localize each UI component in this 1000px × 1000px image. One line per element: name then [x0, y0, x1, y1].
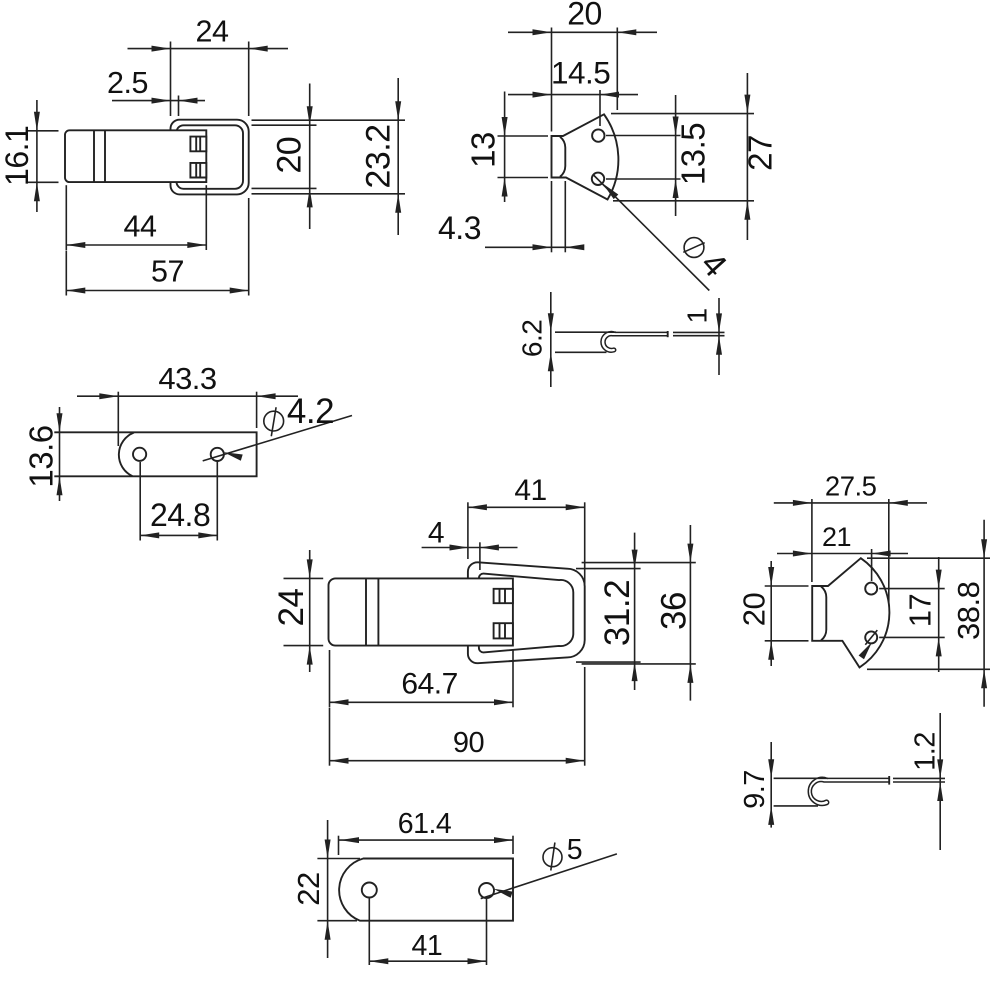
dim 13.5 extension line top [606, 135, 681, 137]
dim 24B arrow top [307, 559, 313, 578]
dim 24.8 arrow left [140, 532, 159, 538]
dim 36 extension line top [582, 562, 696, 564]
dim 17 arrow top [936, 570, 942, 589]
hole dia 4 leader arrow [603, 183, 619, 199]
latch A upper claw inner edge 1 [195, 137, 197, 152]
dim 16.1 arrow bottom [34, 182, 40, 201]
dim 21 arrow left [793, 551, 812, 557]
dim 27 line [746, 73, 748, 240]
dim 1 arrow top [716, 313, 722, 332]
svg-text:24.8: 24.8 [150, 497, 210, 533]
catch plate A upper hole [592, 129, 604, 141]
dim 20 extension line top [252, 124, 317, 126]
dim 27 arrow bottom [744, 201, 750, 220]
dim 2.5 arrow left [152, 98, 171, 104]
dim 41B extension line left [368, 899, 370, 966]
dim 38.8 extension line top [867, 557, 990, 559]
dim 41B arrow right [468, 958, 487, 964]
svg-text:13: 13 [465, 132, 502, 168]
dim 24.8 arrow right [198, 532, 217, 538]
dim 27 extension line top [611, 113, 754, 115]
latch A strap fold line 1 [93, 130, 95, 182]
dim 90 arrow left [330, 758, 349, 764]
catch plate A body [552, 114, 619, 199]
dim 43.3 extension line right [256, 392, 258, 428]
dim 6.2 extension line top [555, 331, 616, 333]
dim 41 line [468, 506, 585, 508]
hook profile B end tick [888, 776, 890, 785]
dim 13.6 arrow bottom [57, 476, 63, 495]
dim 24 arrow left [152, 46, 171, 52]
dim 44 extension line right [205, 185, 207, 250]
dim 41 extension line right [584, 502, 586, 586]
dim 1.2 line [939, 713, 941, 850]
dim 13.6 line [59, 407, 61, 501]
dim 22 extension line bottom [317, 920, 357, 922]
dim 4.3 line [485, 246, 583, 248]
latch B lower claw inner edge 2 [504, 623, 506, 638]
dim 61.4 arrow right [494, 837, 513, 843]
dim 24B extension line bottom [284, 645, 324, 647]
dim 90 extension line right [584, 667, 586, 766]
dia 4.2 symbol circle [264, 411, 284, 431]
svg-text:20: 20 [737, 593, 772, 627]
dia 5 symbol slash [551, 843, 555, 871]
svg-text:36: 36 [654, 592, 693, 630]
svg-text:2.5: 2.5 [107, 66, 148, 100]
latch B lower claw window [494, 623, 513, 638]
plate B right hole [479, 883, 494, 898]
dim 44 line [66, 244, 206, 246]
dim 43.3 arrow right [257, 393, 276, 399]
dia 4 symbol circle [684, 238, 704, 258]
svg-text:4: 4 [428, 516, 444, 549]
svg-text:23.2: 23.2 [359, 124, 397, 188]
dim 20C extension line top [765, 585, 809, 587]
dim 20B arrow left [533, 29, 552, 35]
dim 31.2 line [634, 533, 636, 690]
dim 31.2 extension line top [576, 568, 641, 570]
latch B upper claw window [494, 589, 513, 603]
dim 13.5 arrow bottom [673, 179, 679, 198]
dim 20C line [770, 561, 772, 666]
latch B upper claw inner edge 2 [504, 589, 506, 603]
dim 57 extension line right [248, 198, 250, 296]
dim 24B line [309, 550, 311, 672]
dim 20 line [309, 84, 311, 230]
dim 14.5 line [508, 94, 638, 96]
dim 61.4 arrow left [340, 837, 359, 843]
hook profile B body [808, 777, 889, 805]
dim 21 extension line [871, 549, 873, 581]
dim 22 line [327, 820, 329, 958]
svg-text:22: 22 [291, 872, 326, 905]
catch plate B lower hole [865, 631, 877, 643]
dim 24.8 extension line right [216, 461, 218, 541]
dim 43.3 line [77, 395, 298, 397]
dim 17 extension line top [879, 588, 945, 590]
dim 41B extension line right [486, 899, 488, 965]
latch B strap fold line 2 [377, 578, 379, 645]
plate A right hole [211, 448, 224, 461]
svg-text:1.2: 1.2 [909, 732, 941, 771]
dim 2.5 arrow right [179, 98, 198, 104]
svg-text:24: 24 [196, 15, 229, 49]
dim 24.8 line [140, 534, 217, 536]
svg-text:13.5: 13.5 [675, 123, 712, 185]
dim 24.8 extension line left [139, 462, 141, 541]
dim 17 extension line bottom [879, 636, 945, 638]
dim 6.2 line [550, 292, 552, 387]
dim 23.2 line [397, 78, 399, 235]
dim 27.5 extension line right [888, 499, 890, 605]
dim 36 extension line bottom [582, 663, 696, 665]
dim 2.5 extension line [178, 96, 180, 117]
svg-text:9.7: 9.7 [739, 770, 771, 809]
dim 61.4 extension line left [338, 836, 340, 855]
dim 20C extension line bottom [765, 640, 809, 642]
dim 64.7 arrow left [330, 699, 349, 705]
dim 9.7 arrow bottom [768, 806, 774, 825]
plate A body [54, 432, 256, 476]
dim 13 extension line bottom [498, 177, 549, 179]
dim 61.4 line [339, 839, 514, 841]
dim 21 line [777, 553, 908, 555]
svg-text:90: 90 [453, 727, 484, 759]
hole dia 5 leader line [481, 854, 617, 899]
dim 13 line [504, 92, 506, 203]
dim 4B line [422, 547, 518, 549]
dim 20C arrow top [768, 567, 774, 586]
dim 23.2 extension line top [252, 119, 406, 121]
dim 16.1 extension line top [27, 130, 59, 132]
dim 38.8 arrow top [981, 539, 987, 558]
svg-text:38.8: 38.8 [951, 582, 986, 640]
dim 27 arrow top [744, 95, 750, 114]
dim 44 arrow left [66, 242, 85, 248]
catch plate A lower hole [592, 173, 604, 185]
latch B upper claw inner edge 1 [499, 589, 501, 603]
svg-text:16.1: 16.1 [0, 126, 35, 186]
dim 4.3 extension line left [551, 181, 553, 252]
dim 1 extension line top [673, 331, 725, 333]
dim 36 arrow bottom [687, 664, 693, 683]
dim 64.7 line [330, 701, 514, 703]
dim 90 extension line left [329, 708, 331, 766]
dim 4.3 extension line right [564, 181, 566, 252]
catch plate B hole arrow [859, 642, 873, 659]
latch B wire loop inner outline [479, 574, 573, 653]
dim 44 extension line left [65, 185, 67, 250]
dim 22 arrow bottom [325, 921, 331, 940]
svg-text:21: 21 [822, 522, 851, 552]
svg-text:61.4: 61.4 [398, 808, 452, 840]
dim 38.8 line [983, 520, 985, 707]
svg-text:27: 27 [742, 135, 779, 171]
dim 31.2 arrow top [632, 550, 638, 569]
dim 13.5 arrow top [673, 117, 679, 136]
svg-text:41: 41 [514, 474, 546, 507]
dim 1.2 arrow bottom [937, 782, 943, 801]
dim 27.5 extension line left [811, 499, 813, 582]
svg-text:4.3: 4.3 [438, 210, 481, 246]
svg-text:41: 41 [412, 930, 443, 962]
dim 20B line [508, 31, 657, 33]
latch A upper claw window [190, 137, 206, 152]
dim 14.5 arrow right [600, 92, 619, 98]
dim 38.8 arrow bottom [981, 669, 987, 688]
latch B lower claw inner edge 1 [499, 623, 501, 638]
dim 27.5 arrow left [793, 500, 812, 506]
dim 43.3 arrow left [99, 393, 118, 399]
dim 41 extension line left [467, 502, 469, 559]
dim 23.2 arrow bottom [395, 194, 401, 213]
latch A lower claw inner edge 2 [199, 163, 201, 178]
svg-text:27.5: 27.5 [825, 471, 877, 502]
dim 1 line [718, 298, 720, 375]
dim 24 line [128, 48, 289, 50]
hole dia 4.2 leader arrow [224, 452, 243, 461]
dim 64.7 arrow right [494, 699, 513, 705]
dim 24B extension line top [284, 577, 324, 579]
latch B strap fold line 1 [365, 578, 367, 645]
dim 13.5 extension line bottom [606, 178, 681, 180]
hook profile A body [601, 332, 668, 353]
dim 9.7 arrow top [768, 759, 774, 778]
catch plate B upper hole [865, 583, 877, 595]
dim 6.2 arrow top [548, 313, 554, 332]
dim 20B extension line right [616, 28, 618, 111]
latch A upper claw inner edge 2 [199, 137, 201, 152]
plate B body [339, 859, 513, 921]
plate A left hole [133, 448, 146, 461]
dia 4.2 symbol slash [271, 407, 276, 436]
hole dia 4 leader line [593, 175, 709, 291]
dia 5 symbol circle [543, 848, 562, 867]
dim 4B arrow right [480, 545, 499, 551]
dim 23.2 arrow top [395, 101, 401, 120]
dim 16.1 line [36, 100, 38, 212]
dim 20C arrow bottom [768, 641, 774, 660]
dim 24B arrow bottom [307, 646, 313, 665]
dim 24 arrow right [249, 46, 268, 52]
dim 20B extension line left [551, 28, 553, 132]
dim 64.7 extension line right [512, 650, 514, 707]
latch A lower claw inner edge 1 [195, 163, 197, 178]
dim 38.8 extension line bottom [867, 668, 990, 670]
catch plate B body [812, 558, 889, 667]
dim 36 arrow top [687, 544, 693, 563]
plate A fold arc [119, 433, 134, 477]
dim 14.5 extension line [599, 90, 601, 126]
dim 36 line [689, 525, 691, 701]
dim 17 line [938, 557, 940, 672]
dim 13.6 arrow top [57, 413, 63, 432]
svg-text:20: 20 [567, 0, 602, 31]
dim 27.5 line [774, 502, 927, 504]
catch plate B hole slash [865, 630, 877, 645]
dim 90 line [330, 760, 585, 762]
dim 4B extension line [479, 542, 481, 570]
svg-text:1: 1 [681, 308, 712, 323]
dim 16.1 extension line bottom [27, 181, 59, 183]
latch B wire loop outer outline [468, 562, 585, 663]
latch A lower claw window [190, 163, 206, 178]
hole dia 5 leader arrow [494, 889, 513, 898]
dim 1.2 extension line top [893, 777, 945, 779]
dim 9.7 extension line top [774, 777, 828, 779]
dim 17 arrow bottom [936, 637, 942, 656]
dim 41B line [369, 960, 486, 962]
latch A wire loop outer outline [171, 120, 249, 195]
dim 57 line [66, 290, 248, 292]
dim 6.2 arrow bottom [548, 352, 554, 371]
dim 20 arrow top [307, 106, 313, 125]
dim 13.5 line [675, 95, 677, 216]
svg-text:13.6: 13.6 [22, 425, 59, 487]
dim 27.5 arrow right [889, 500, 908, 506]
dim 21 arrow right [872, 551, 891, 557]
dim 57 arrow right [230, 288, 249, 294]
dim 9.7 extension line bottom [774, 805, 818, 807]
dim 41 arrow right [566, 504, 585, 510]
dim 13 extension line top [498, 135, 549, 137]
svg-text:57: 57 [151, 255, 184, 289]
catch plate B lip right edge [821, 586, 826, 640]
dim 90 arrow right [566, 758, 585, 764]
dim 24 extension line right [248, 42, 250, 117]
dim 64.7 extension line left [329, 650, 331, 707]
hook profile A end tick [667, 331, 669, 337]
dim 16.1 arrow top [34, 112, 40, 131]
dia 4 symbol slash [683, 243, 704, 253]
dim 4.3 arrow left [533, 244, 552, 250]
dim 43.3 extension line left [117, 392, 119, 446]
dim 20 arrow bottom [307, 188, 313, 207]
hole dia 4.2 leader line [203, 416, 352, 461]
dim 61.4 extension line right [512, 836, 514, 854]
dim 13 arrow bottom [502, 178, 508, 197]
svg-text:4.2: 4.2 [287, 392, 334, 431]
plate B left hole [362, 883, 377, 898]
dim 31.2 extension line bottom [576, 661, 641, 663]
dim 4.3 arrow right [565, 244, 584, 250]
dim 31.2 arrow bottom [632, 662, 638, 681]
dim 22 extension line top [317, 858, 360, 860]
latch A strap body [65, 130, 206, 182]
svg-text:20: 20 [271, 137, 309, 174]
latch A strap fold line 2 [104, 130, 106, 182]
svg-text:14.5: 14.5 [551, 54, 610, 90]
dim 1 arrow bottom [716, 336, 722, 355]
dim 14.5 arrow left [533, 92, 552, 98]
latch A wire loop inner outline [177, 125, 244, 189]
dim 57 extension line left [65, 251, 67, 296]
dim 1.2 extension line bottom [893, 781, 945, 783]
dim 13 arrow top [502, 117, 508, 136]
svg-text:6.2: 6.2 [517, 320, 548, 357]
svg-text:44: 44 [124, 210, 157, 244]
dim 22 arrow top [325, 840, 331, 859]
dim 6.2 extension line bottom [555, 351, 607, 353]
svg-text:43.3: 43.3 [158, 361, 216, 396]
dim 27 extension line bottom [613, 200, 754, 202]
dim 44 arrow right [187, 242, 206, 248]
svg-text:5: 5 [567, 834, 582, 866]
dim 41 arrow left [468, 504, 487, 510]
dim 4B arrow left [450, 545, 469, 551]
dim 24 extension line left [170, 42, 172, 117]
dim 41B arrow left [369, 958, 388, 964]
dim 1.2 arrow top [937, 759, 943, 778]
dim 1 extension line bottom [673, 335, 725, 337]
dim 9.7 line [770, 742, 772, 828]
svg-text:24: 24 [272, 589, 311, 627]
catch plate A lip right edge [560, 137, 565, 177]
latch B strap body [329, 578, 513, 645]
dim 23.2 extension line bottom [252, 193, 406, 195]
svg-text:31.2: 31.2 [598, 580, 637, 646]
dim 57 arrow left [66, 288, 85, 294]
dim 20 extension line bottom [252, 187, 317, 189]
dim 20B arrow right [617, 29, 636, 35]
svg-text:17: 17 [903, 594, 938, 627]
svg-text:64.7: 64.7 [401, 667, 457, 700]
dim 2.5 line [112, 100, 205, 102]
